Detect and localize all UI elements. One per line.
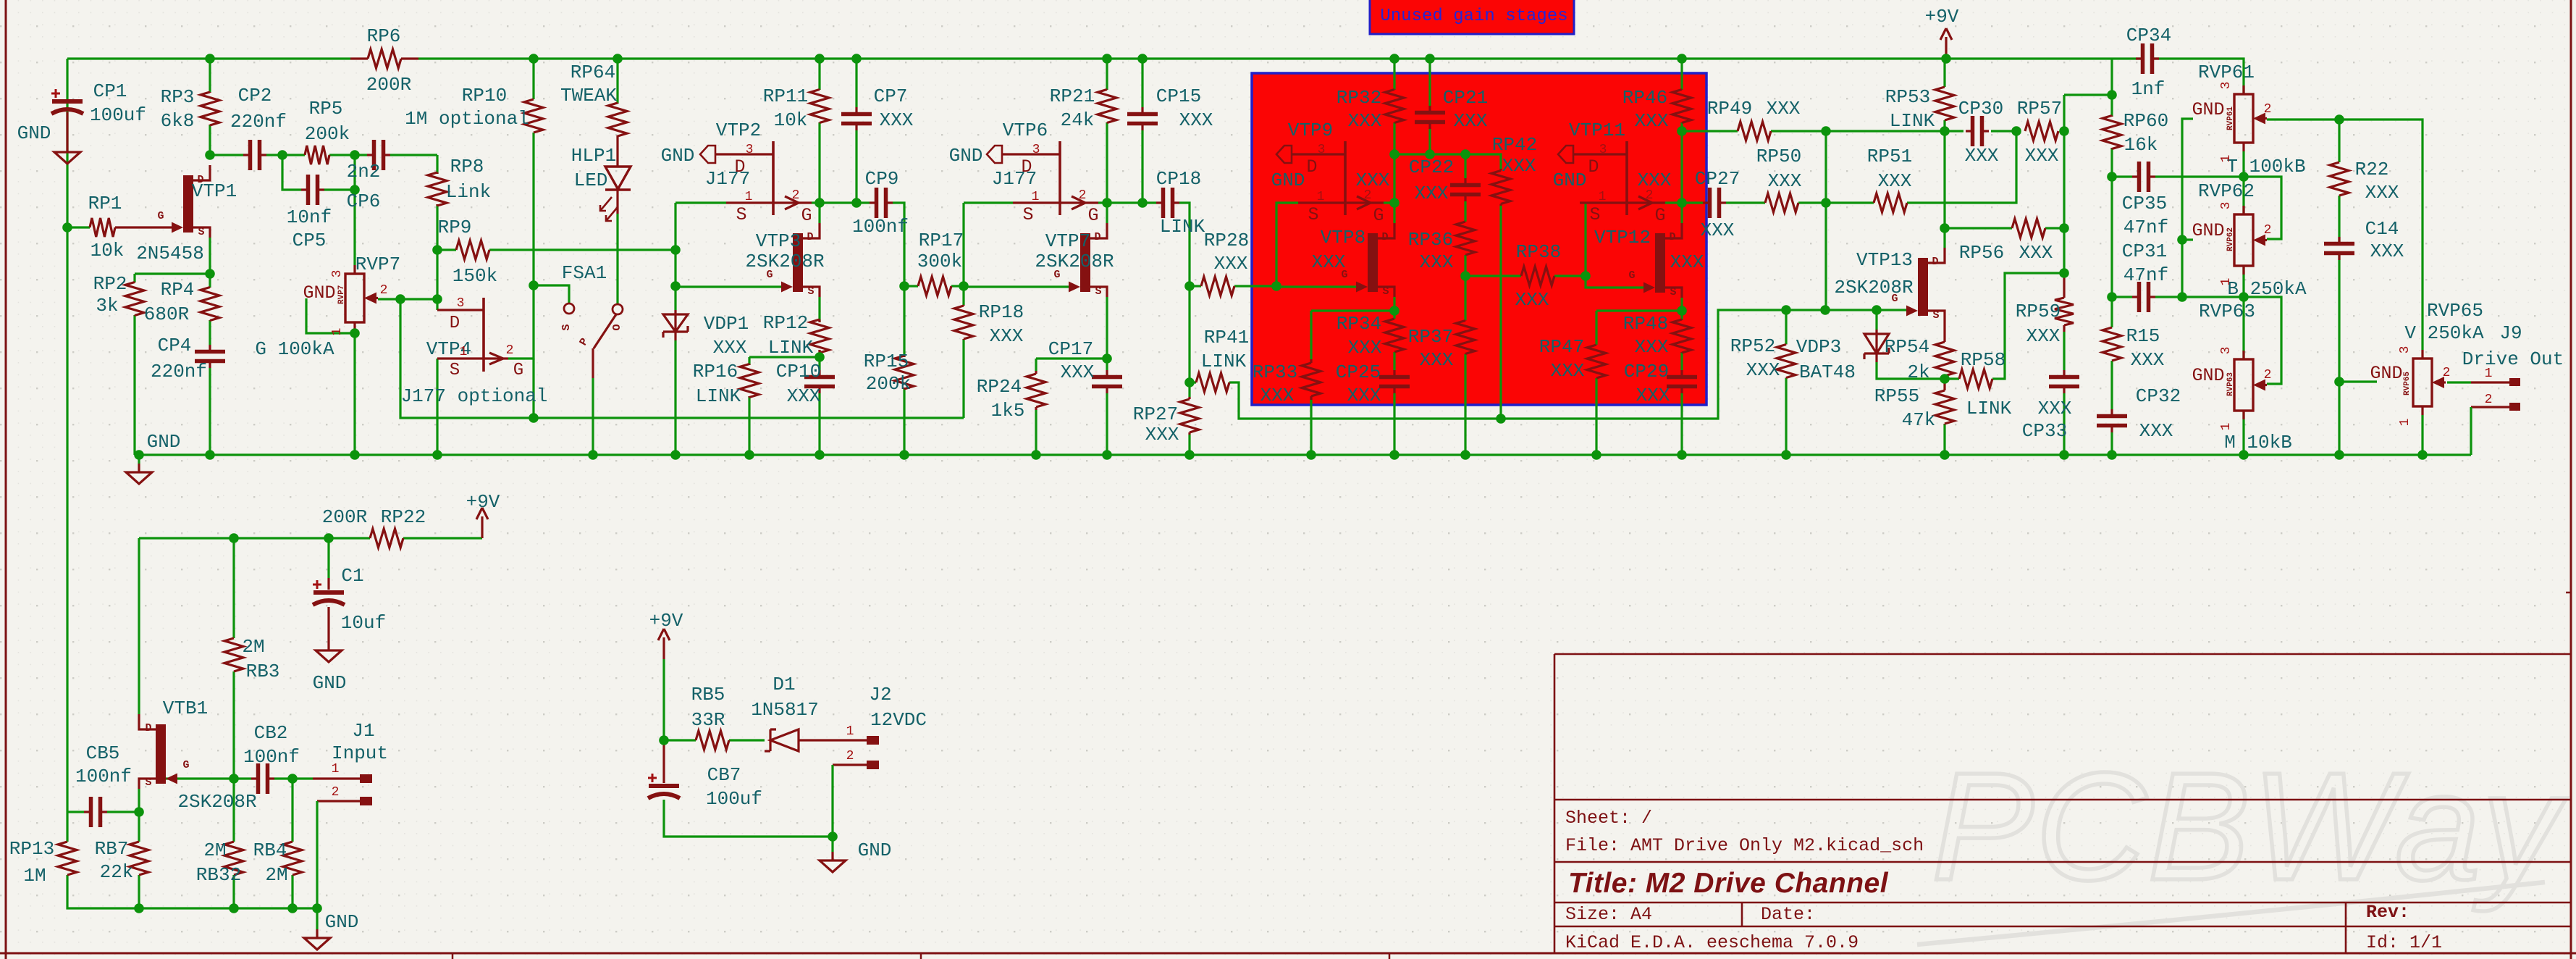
capacitor CP5 10nf bbox=[301, 175, 324, 205]
power +9V bottom-left bbox=[466, 491, 500, 538]
wire +9V rail left bbox=[67, 57, 350, 59]
svg-text:XXX: XXX bbox=[2019, 242, 2053, 264]
svg-text:CP27: CP27 bbox=[1695, 168, 1740, 190]
wire RP52 to bus bbox=[1785, 378, 1787, 455]
capacitor C1 10uf bbox=[313, 580, 345, 605]
svg-text:RP2: RP2 bbox=[93, 273, 127, 295]
resistor R15 XXX bbox=[2103, 327, 2121, 361]
svg-text:RB4: RB4 bbox=[253, 839, 287, 861]
svg-text:2SK208R: 2SK208R bbox=[1035, 251, 1114, 272]
svg-text:CP1: CP1 bbox=[93, 80, 127, 102]
svg-text:XXX: XXX bbox=[1214, 253, 1248, 275]
junction at 3014,331 bbox=[2177, 235, 2187, 245]
svg-text:GND: GND bbox=[1271, 169, 1305, 191]
wire VDP3 top bbox=[1875, 310, 1877, 330]
junction at 290,214 bbox=[205, 150, 215, 160]
junction at 2190,381 bbox=[1580, 271, 1591, 281]
ground below C1 bbox=[316, 642, 342, 662]
svg-text:KiCad E.D.A. eeschema 7.0.9: KiCad E.D.A. eeschema 7.0.9 bbox=[1565, 932, 1859, 953]
svg-text:D: D bbox=[807, 231, 813, 243]
wire RB32 to bus bbox=[232, 875, 235, 908]
svg-text:RP53: RP53 bbox=[1885, 86, 1930, 108]
wire RP58 riser bbox=[1992, 273, 2064, 379]
svg-text:RP5: RP5 bbox=[309, 98, 343, 120]
svg-text:RVP65: RVP65 bbox=[2403, 372, 2412, 395]
resistor RP64 TWEAK bbox=[608, 103, 627, 136]
wire RP15 to bus bbox=[903, 388, 905, 455]
wire to VTP7 gate bbox=[964, 285, 1069, 288]
svg-text:XXX: XXX bbox=[990, 325, 1024, 347]
capacitor CP30 XXX bbox=[1966, 116, 1989, 146]
svg-text:VTB1: VTB1 bbox=[163, 698, 208, 719]
svg-text:XXX: XXX bbox=[880, 109, 914, 131]
wire RP53 down bbox=[1943, 120, 1945, 131]
wire VTP8 S down bbox=[1393, 297, 1395, 311]
svg-text:100nf: 100nf bbox=[243, 746, 300, 768]
resistor RP8 Link bbox=[428, 172, 447, 206]
resistor RP33 XXX bbox=[1302, 359, 1321, 400]
svg-text:CP7: CP7 bbox=[874, 85, 908, 107]
svg-text:G: G bbox=[1373, 205, 1384, 226]
transistor VTP9 J177 body bbox=[1298, 141, 1384, 215]
capacitor CP29 XXX bbox=[1667, 370, 1697, 393]
junction at 1132,280 bbox=[815, 198, 825, 208]
resistor RP54 2k bbox=[1935, 321, 1954, 376]
junction at 2024,381 bbox=[1460, 271, 1470, 281]
junction at 1529,495 bbox=[1102, 353, 1112, 364]
svg-text:RP50: RP50 bbox=[1756, 146, 1801, 167]
svg-text:1: 1 bbox=[2219, 423, 2234, 431]
wire LED to FSA1 O terminal bbox=[616, 214, 618, 304]
wire CP34 branch down bbox=[2110, 59, 2113, 95]
wire to RP13 bbox=[66, 812, 68, 842]
wire C1 to GND bbox=[327, 607, 329, 642]
zener diode VDP3 BAT48 bbox=[1864, 330, 1889, 362]
junction at 490,214 bbox=[350, 150, 360, 160]
wire RVP65 wiper out bbox=[2447, 381, 2471, 383]
wire RP37 to bus bbox=[1464, 354, 1466, 455]
wire VTP9 S to gate node bbox=[1276, 203, 1298, 286]
power flag GND for VTP11 bbox=[1558, 146, 1573, 163]
resistor RP3 6k8 bbox=[201, 92, 219, 125]
svg-text:G: G bbox=[513, 361, 523, 380]
svg-text:G: G bbox=[1654, 205, 1665, 226]
svg-text:CP6: CP6 bbox=[347, 190, 381, 212]
wire VTP8 drain up bbox=[1393, 203, 1395, 223]
svg-text:XXX: XXX bbox=[1179, 109, 1213, 131]
svg-text:RP32: RP32 bbox=[1337, 87, 1381, 109]
svg-text:200R: 200R bbox=[366, 74, 411, 96]
connector J2 pads bbox=[867, 736, 879, 769]
wire to RB32 bbox=[232, 779, 235, 842]
wire CP4 to bus bbox=[209, 368, 211, 455]
resistor RP48 XXX bbox=[1672, 319, 1691, 353]
svg-text:XXX: XXX bbox=[1768, 170, 1802, 192]
junction at 933,395 bbox=[670, 281, 681, 291]
svg-text:220nf: 220nf bbox=[151, 361, 207, 382]
wire VTP6 S link bbox=[964, 201, 1013, 204]
wire RP2 top bbox=[133, 274, 135, 282]
junction at 192,1121 bbox=[134, 807, 144, 817]
svg-text:200R: 200R bbox=[322, 506, 367, 528]
junction at 1150,1155 bbox=[828, 832, 838, 842]
svg-text:S: S bbox=[1022, 204, 1033, 225]
wire col to CP31 node bbox=[2110, 177, 2113, 297]
wire RP27 to bus bbox=[1188, 435, 1190, 455]
svg-text:Sheet: /: Sheet: / bbox=[1565, 808, 1652, 829]
svg-text:2n2: 2n2 bbox=[347, 161, 381, 183]
svg-text:G: G bbox=[766, 269, 773, 281]
wire RP3 to node bbox=[209, 125, 211, 155]
svg-text:RP57: RP57 bbox=[2017, 98, 2062, 120]
wire RP1 to VTP1 gate bbox=[115, 226, 172, 228]
svg-text:D: D bbox=[734, 156, 745, 177]
unused gain stages red block bbox=[1252, 73, 1706, 405]
wire VTP4 S line bbox=[437, 357, 484, 359]
junction at 1763,395 bbox=[1271, 281, 1281, 291]
junction at 93,314 bbox=[62, 222, 72, 233]
svg-text:CP25: CP25 bbox=[1336, 361, 1381, 383]
junction at 1183,280 bbox=[851, 198, 862, 208]
capacitor CP17 XXX bbox=[1092, 370, 1122, 393]
svg-text:2: 2 bbox=[846, 749, 854, 763]
wire rail2 to RB3 bbox=[232, 538, 235, 638]
svg-text:CB7: CB7 bbox=[707, 764, 741, 786]
resistor RB4 2M bbox=[283, 842, 302, 875]
junction at 1132,628 bbox=[815, 450, 825, 460]
svg-text:RP33: RP33 bbox=[1253, 361, 1297, 383]
wire VTP6 S down bbox=[962, 203, 964, 286]
wire RB7 to bus bbox=[138, 875, 140, 908]
capacitor CP15 XXX bbox=[1127, 107, 1158, 130]
svg-text:XXX: XXX bbox=[1347, 385, 1381, 406]
wire to CB7 bbox=[662, 740, 665, 774]
svg-text:CP18: CP18 bbox=[1156, 168, 1201, 190]
wire R22 top bbox=[2338, 120, 2340, 162]
svg-text:RP10: RP10 bbox=[462, 85, 507, 106]
svg-text:LINK: LINK bbox=[768, 337, 814, 359]
svg-text:CP9: CP9 bbox=[865, 168, 899, 190]
wire rail2 to VTB1 D bbox=[138, 538, 140, 714]
wire J1 pin1 bbox=[313, 777, 360, 779]
svg-text:+9V: +9V bbox=[649, 610, 683, 632]
svg-text:200k: 200k bbox=[866, 373, 911, 395]
junction at 1926,628 bbox=[1389, 450, 1399, 460]
svg-text:G 100kA: G 100kA bbox=[255, 338, 334, 360]
junction at 2522,181 bbox=[1821, 126, 1831, 136]
junction at 2323,628 bbox=[1677, 450, 1687, 460]
junction at 2686,315 bbox=[1940, 223, 1950, 233]
resistor RP21 24k bbox=[1098, 90, 1116, 123]
svg-text:XXX: XXX bbox=[2026, 325, 2061, 347]
wire CP32 to bus bbox=[2110, 432, 2113, 455]
svg-text:RVP65: RVP65 bbox=[2427, 300, 2483, 322]
svg-text:LINK: LINK bbox=[1201, 351, 1247, 372]
resistor RP4 680R bbox=[201, 288, 219, 321]
svg-text:XXX: XXX bbox=[1145, 424, 1179, 445]
resistor RP15 200k bbox=[895, 356, 914, 389]
wire VTB1 gate line bbox=[156, 777, 234, 779]
wire FSA1 to bus bbox=[592, 378, 594, 455]
capacitor CB7 100uf bbox=[648, 774, 680, 798]
wire CP29 to bus bbox=[1680, 393, 1683, 455]
junction at 604,345 bbox=[432, 245, 442, 255]
junction at 1926,81 bbox=[1389, 54, 1399, 64]
svg-text:XXX: XXX bbox=[1348, 110, 1382, 132]
svg-text:RP37: RP37 bbox=[1408, 326, 1453, 348]
wire VTP3 drain up bbox=[818, 203, 820, 223]
svg-text:GND: GND bbox=[313, 672, 347, 694]
svg-text:1: 1 bbox=[2398, 419, 2412, 427]
wire to RVP62 wiper bbox=[2244, 177, 2281, 239]
svg-text:XXX: XXX bbox=[1348, 337, 1382, 359]
wire RP41 left bbox=[1190, 381, 1196, 383]
junction at 3231,165 bbox=[2334, 114, 2344, 125]
capacitor CB5 100nf bbox=[84, 797, 107, 827]
wire to RP8 bbox=[436, 155, 438, 174]
svg-text:J2: J2 bbox=[869, 684, 891, 705]
transistor VTP12 XXX bbox=[1643, 223, 1682, 298]
wire RP18 bottom bbox=[962, 340, 964, 418]
wire col to gate line bbox=[1824, 203, 1827, 310]
svg-text:3: 3 bbox=[330, 270, 345, 278]
wire J9 pin2 bbox=[2471, 406, 2509, 408]
wire RP41 long run to VTP13 gate bbox=[1229, 310, 1906, 419]
svg-text:LINK: LINK bbox=[1160, 216, 1205, 238]
svg-text:D: D bbox=[1021, 156, 1032, 177]
junction at 1578,280 bbox=[1137, 198, 1148, 208]
svg-text:C14: C14 bbox=[2365, 218, 2399, 240]
junction at 490,262 bbox=[350, 185, 360, 195]
svg-text:1nf: 1nf bbox=[2131, 78, 2165, 100]
wire CP2 to node bbox=[266, 154, 282, 156]
resistor RP13 1M bbox=[58, 842, 77, 875]
svg-text:3: 3 bbox=[457, 296, 465, 311]
svg-text:2: 2 bbox=[506, 343, 514, 358]
resistor RP36 XXX bbox=[1456, 222, 1475, 255]
transistor VTP6 J177 body bbox=[1013, 141, 1098, 215]
junction at 2686,181 bbox=[1940, 126, 1950, 136]
wire rail2 to +9V bbox=[403, 537, 482, 539]
LED HLP1 bbox=[600, 167, 631, 221]
wire RVP7 gnd loop bbox=[306, 298, 355, 333]
svg-text:RP51: RP51 bbox=[1867, 146, 1912, 167]
wire J2 pin2 bbox=[833, 763, 867, 766]
svg-text:100uf: 100uf bbox=[706, 788, 762, 810]
wire CP31 to pot col bbox=[2155, 296, 2244, 298]
svg-text:XXX: XXX bbox=[1965, 145, 1999, 167]
junction at 553,413 bbox=[395, 294, 405, 304]
capacitor CP7 XXX bbox=[841, 107, 872, 130]
transistor VTP8 XXX bbox=[1356, 223, 1394, 297]
wire RP8 node down bbox=[436, 250, 438, 299]
svg-text:RB32: RB32 bbox=[196, 864, 241, 886]
svg-text:XXX: XXX bbox=[1415, 183, 1449, 204]
svg-text:XXX: XXX bbox=[2365, 182, 2399, 204]
svg-text:1: 1 bbox=[1599, 190, 1607, 204]
resistor RP56 XXX bbox=[2012, 219, 2045, 238]
wire node to RP5 bbox=[282, 154, 305, 156]
svg-text:VTP9: VTP9 bbox=[1288, 120, 1333, 141]
resistor RP51 XXX bbox=[1874, 193, 1907, 212]
svg-text:3: 3 bbox=[2219, 202, 2234, 210]
svg-text:RVP61: RVP61 bbox=[2198, 62, 2255, 83]
svg-text:G: G bbox=[1341, 269, 1347, 281]
junction at 3014,410 bbox=[2177, 292, 2187, 302]
svg-text:3k: 3k bbox=[96, 295, 118, 317]
wire VTP11 G out bbox=[1665, 201, 1682, 204]
svg-text:G: G bbox=[1087, 205, 1098, 226]
svg-text:CP30: CP30 bbox=[1958, 98, 2003, 120]
resistor RP32 XXX bbox=[1385, 90, 1404, 123]
resistor RP6 200R bbox=[350, 49, 418, 68]
svg-text:100nf: 100nf bbox=[852, 216, 909, 238]
svg-text:CP35: CP35 bbox=[2122, 193, 2167, 214]
wire RP28 left bbox=[1190, 285, 1201, 287]
wire to RVP63 wiper bbox=[2244, 297, 2281, 384]
potentiometer RVP61 bbox=[2234, 85, 2267, 151]
svg-text:3: 3 bbox=[2219, 82, 2234, 90]
capacitor C14 XXX bbox=[2324, 237, 2354, 260]
svg-text:1: 1 bbox=[2219, 278, 2234, 286]
svg-text:1M optional: 1M optional bbox=[405, 108, 529, 130]
wire VTP9 D line bbox=[1291, 153, 1345, 155]
svg-text:47nf: 47nf bbox=[2123, 217, 2168, 238]
svg-text:RP58: RP58 bbox=[1961, 349, 2005, 371]
svg-text:47nf: 47nf bbox=[2123, 264, 2168, 286]
junction at 2521,428 bbox=[1820, 305, 1830, 315]
svg-text:XXX: XXX bbox=[1420, 251, 1454, 273]
junction at 1975,81 bbox=[1425, 54, 1435, 64]
svg-text:CP17: CP17 bbox=[1048, 338, 1093, 360]
connector J1 pads bbox=[360, 774, 372, 805]
svg-text:+9V: +9V bbox=[466, 491, 500, 513]
potentiometer RVP65 bbox=[2413, 350, 2446, 415]
svg-text:3: 3 bbox=[1032, 143, 1040, 157]
svg-text:S: S bbox=[450, 361, 460, 380]
wire RP51 out riser bbox=[1907, 131, 2016, 203]
svg-text:S: S bbox=[1670, 286, 1676, 298]
svg-text:2: 2 bbox=[1364, 188, 1372, 203]
resistor RP16 LINK bbox=[740, 364, 759, 398]
junction at 1926,213 bbox=[1389, 149, 1399, 159]
svg-text:2: 2 bbox=[1079, 188, 1087, 203]
svg-text:CP22: CP22 bbox=[1409, 156, 1454, 178]
svg-text:XXX: XXX bbox=[1670, 251, 1704, 273]
wire RP48 top bbox=[1680, 311, 1683, 320]
wire to RB7 bbox=[138, 812, 140, 842]
svg-text:G: G bbox=[1628, 269, 1635, 282]
svg-text:S: S bbox=[198, 226, 204, 238]
wire J1 pin2 down bbox=[316, 801, 318, 908]
svg-text:G: G bbox=[157, 210, 164, 222]
wire RP60 to CP35 node bbox=[2110, 148, 2113, 177]
svg-text:RP60: RP60 bbox=[2123, 110, 2168, 132]
wire RP24 to bus bbox=[1035, 410, 1037, 455]
svg-text:D: D bbox=[197, 174, 203, 186]
wire CP1 to GND bbox=[66, 112, 68, 143]
wire node to RP15 bbox=[903, 286, 905, 357]
wire to gnd sym bbox=[831, 837, 833, 852]
svg-text:2SK208R: 2SK208R bbox=[1834, 277, 1913, 298]
svg-text:XXX: XXX bbox=[1635, 110, 1669, 132]
capacitor CP33 XXX bbox=[2049, 370, 2079, 393]
wire RVP61 wiper out bbox=[2267, 118, 2339, 120]
svg-text:CP33: CP33 bbox=[2022, 420, 2067, 442]
svg-text:CP5: CP5 bbox=[292, 230, 327, 251]
resistor R22 XXX bbox=[2330, 162, 2349, 196]
transistor VTB1 2SK208R bbox=[139, 714, 177, 789]
wire RB5 to D1 bbox=[729, 739, 765, 741]
svg-text:CB2: CB2 bbox=[254, 722, 288, 744]
svg-text:R22: R22 bbox=[2355, 159, 2389, 180]
junction at 438,1254 bbox=[312, 903, 322, 913]
svg-text:XXX: XXX bbox=[2025, 145, 2059, 167]
wire CP5 to node bbox=[324, 188, 355, 190]
svg-text:LINK: LINK bbox=[1890, 110, 1935, 132]
svg-text:RP4: RP4 bbox=[161, 279, 195, 301]
svg-text:100nf: 100nf bbox=[75, 766, 132, 787]
svg-text:J177 optional: J177 optional bbox=[401, 385, 548, 407]
svg-text:G: G bbox=[1053, 269, 1060, 281]
wire to FSA1 S terminal bbox=[534, 285, 569, 303]
wire RP57 node to CP34 col bbox=[2064, 93, 2112, 96]
svg-text:RVP63: RVP63 bbox=[2199, 301, 2255, 322]
capacitor CP9 100nf bbox=[870, 188, 893, 218]
junction at 2073,578 bbox=[1496, 414, 1506, 424]
junction at 323,1075 bbox=[229, 774, 239, 784]
resistor RP52 XXX bbox=[1777, 344, 1796, 378]
wire rail to RP64 bbox=[616, 59, 618, 104]
junction at 737,394 bbox=[529, 280, 539, 290]
potentiometer RVP62 bbox=[2234, 206, 2267, 275]
svg-text:200k: 200k bbox=[305, 123, 350, 145]
wire RP47 top bbox=[1595, 311, 1597, 345]
svg-text:D: D bbox=[1306, 156, 1317, 177]
wire RP24 to CP17 node bbox=[1036, 357, 1107, 359]
wire VTP13 drain up bbox=[1943, 228, 1945, 248]
svg-text:G: G bbox=[182, 759, 189, 771]
wire rail to CP7 bbox=[855, 59, 857, 107]
capacitor CP4 220nf bbox=[195, 345, 225, 368]
resistor RP55 47k bbox=[1935, 390, 1954, 424]
junction at 2686,523 bbox=[1940, 374, 1950, 384]
wire RB3 to gate line bbox=[232, 671, 235, 779]
svg-text:RVP63: RVP63 bbox=[2226, 372, 2235, 396]
wire VTP9 G out bbox=[1384, 201, 1394, 204]
svg-text:S: S bbox=[807, 285, 814, 298]
svg-text:File: AMT Drive Only M2.kicad_: File: AMT Drive Only M2.kicad_sch bbox=[1565, 835, 1924, 856]
power flag GND for VTP6 bbox=[987, 146, 1002, 163]
svg-text:D: D bbox=[1932, 256, 1938, 268]
svg-text:RP17: RP17 bbox=[919, 230, 964, 251]
svg-text:RP41: RP41 bbox=[1204, 327, 1249, 348]
wire RP18 top bbox=[962, 286, 964, 305]
resistor RP47 XXX bbox=[1587, 345, 1606, 378]
svg-text:S: S bbox=[1589, 204, 1600, 225]
wire RP10 down bbox=[532, 133, 534, 285]
resistor RP18 XXX bbox=[954, 305, 973, 340]
junction at 933,345 bbox=[670, 245, 681, 255]
wire VTP3 gate line bbox=[675, 285, 781, 288]
resistor RP17 300k bbox=[918, 277, 951, 296]
wire CP31 left bbox=[2112, 296, 2132, 298]
wire rail to RP32 bbox=[1393, 59, 1395, 90]
junction at 2851,377 bbox=[2059, 268, 2069, 278]
junction at 1249,395 bbox=[899, 281, 909, 291]
wire RP21 down bbox=[1106, 122, 1108, 203]
svg-text:RP52: RP52 bbox=[1730, 335, 1775, 357]
